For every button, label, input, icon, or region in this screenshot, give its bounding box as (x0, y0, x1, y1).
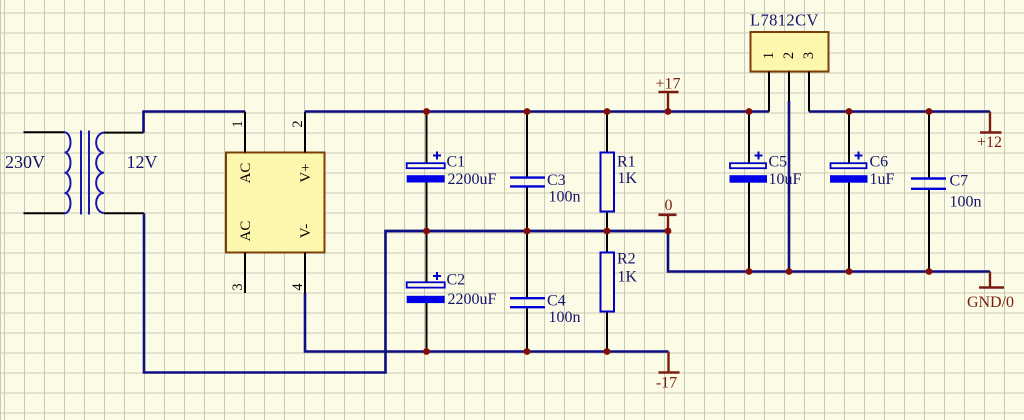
svg-text:C7: C7 (950, 173, 969, 190)
svg-text:2: 2 (781, 52, 797, 59)
svg-text:3: 3 (230, 283, 246, 290)
svg-text:V-: V- (298, 224, 314, 238)
svg-text:1K: 1K (618, 170, 638, 187)
capacitor C7 lead top (928, 112, 930, 179)
junction dots mid rail (423, 228, 671, 235)
capacitor C2 symbol (407, 272, 445, 303)
transformer primary top pin (24, 131, 65, 133)
power port -17 (656, 352, 680, 392)
bridge pin 3 (244, 253, 246, 294)
svg-text:100n: 100n (950, 194, 982, 211)
bridge rectifier B1 body (226, 153, 325, 253)
transformer secondary bottom pin (104, 212, 144, 214)
svg-text:+12: +12 (977, 134, 1002, 151)
svg-text:R1: R1 (617, 154, 636, 171)
wire -17 bottom rail (305, 293, 669, 352)
svg-text:4: 4 (290, 283, 306, 291)
capacitor C3 lead top (526, 112, 528, 178)
wire mid 0 rail (386, 230, 669, 233)
junction dots 0 rail (746, 268, 933, 275)
svg-text:AC: AC (238, 221, 254, 242)
bridge pin 4 (304, 253, 306, 294)
capacitor C6 lead bottom (848, 183, 850, 272)
wire 0 rail lower (668, 231, 990, 272)
wire regulator pin 2 to 0 rail (788, 101, 791, 272)
capacitor C1 lead top (426, 112, 428, 164)
capacitor C6 lead top (848, 112, 850, 164)
resistor R1 lead bottom (606, 212, 608, 232)
svg-text:C5: C5 (769, 154, 788, 171)
svg-text:1: 1 (230, 120, 246, 127)
svg-text:12V: 12V (127, 152, 158, 172)
wire secondary bottom to 0 net (mid rail) (144, 213, 668, 372)
power port 0 (659, 197, 677, 231)
transformer T1 core (81, 131, 89, 215)
capacitor C7 lead bottom (928, 189, 930, 272)
power port +17 (655, 76, 680, 112)
power port GND/0 (967, 272, 1014, 312)
capacitor C4 symbol (510, 298, 545, 307)
svg-text:AC: AC (238, 163, 254, 184)
svg-text:0: 0 (665, 197, 673, 214)
svg-text:R2: R2 (617, 251, 636, 268)
regulator pin 2 (788, 72, 790, 102)
capacitor C4 lead top (526, 231, 528, 298)
resistor R2 lead top (606, 231, 608, 253)
wire +12 rail (809, 110, 990, 113)
junction dots +12 rail (846, 108, 933, 115)
transformer primary bottom pin (24, 212, 65, 214)
power port +12 (977, 112, 1002, 152)
svg-text:1: 1 (761, 52, 777, 59)
resistor R2 lead bottom (606, 312, 608, 352)
svg-text:GND/0: GND/0 (967, 294, 1014, 311)
capacitor C5 lead top (748, 112, 750, 164)
wire +17 top rail (305, 110, 769, 113)
regulator pin 3 (808, 72, 810, 112)
svg-text:C1: C1 (447, 154, 466, 171)
capacitor C4 lead bottom (526, 309, 528, 352)
capacitor C1 symbol (407, 152, 445, 183)
bridge pin 2 (304, 112, 306, 153)
capacitor C3 symbol (510, 178, 545, 187)
transformer T1 secondary coil (96, 133, 104, 213)
svg-text:100n: 100n (549, 309, 581, 326)
svg-text:1K: 1K (618, 269, 638, 286)
svg-text:C3: C3 (547, 172, 566, 189)
transformer T1 primary coil (65, 132, 71, 213)
capacitor C6 symbol (830, 152, 868, 183)
capacitor C7 symbol (911, 179, 946, 189)
capacitor C2 lead top (426, 231, 428, 283)
resistor R1 lead top (606, 112, 608, 153)
junction dots top rail (423, 108, 752, 115)
svg-text:L7812CV: L7812CV (750, 11, 819, 30)
svg-text:3: 3 (801, 52, 817, 59)
capacitor C5 symbol (730, 152, 768, 183)
junction dots bottom rail (423, 348, 610, 355)
resistor R2 body (601, 253, 615, 312)
bridge pin 1 (244, 112, 246, 153)
svg-text:2200uF: 2200uF (448, 291, 497, 308)
resistor R1 body (601, 153, 615, 212)
wire secondary top to bridge pin 1 (144, 112, 246, 133)
capacitor C2 lead bottom (426, 303, 428, 352)
capacitor C1 lead bottom (426, 183, 428, 232)
regulator U1 L7812CV body (751, 32, 829, 72)
svg-text:C4: C4 (547, 293, 566, 310)
transformer secondary top pin (104, 132, 144, 134)
svg-text:C6: C6 (870, 154, 889, 171)
svg-text:2: 2 (290, 120, 306, 127)
svg-text:10uF: 10uF (769, 171, 802, 188)
capacitor C3 lead bottom (526, 188, 528, 232)
svg-text:C2: C2 (447, 272, 466, 289)
svg-text:-17: -17 (656, 375, 677, 392)
svg-text:V+: V+ (298, 163, 314, 182)
svg-text:230V: 230V (5, 152, 45, 172)
svg-text:100n: 100n (549, 189, 581, 206)
svg-text:1uF: 1uF (870, 171, 895, 188)
capacitor C5 lead bottom (748, 183, 750, 272)
svg-text:+17: +17 (655, 76, 680, 93)
regulator pin 1 (768, 72, 770, 112)
svg-text:2200uF: 2200uF (448, 171, 497, 188)
